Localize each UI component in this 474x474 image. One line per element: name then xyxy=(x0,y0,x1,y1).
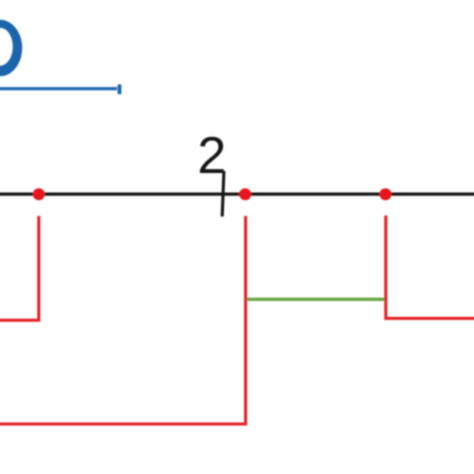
red path from point 1 xyxy=(0,216,39,320)
title underline end tick xyxy=(118,84,122,94)
number line xyxy=(0,192,474,195)
point dot 1 xyxy=(33,188,45,200)
green segment xyxy=(246,298,386,301)
title glyph 0 (partial, cropped at left edge) xyxy=(0,20,22,77)
tick mark for 2 xyxy=(222,171,224,217)
title underline (blue) xyxy=(0,87,117,90)
red path from point 3 xyxy=(386,216,474,319)
svg-text:2: 2 xyxy=(197,127,226,185)
red path from point 2 xyxy=(0,216,246,424)
point dot 3 xyxy=(380,188,392,200)
point dot 2 xyxy=(239,188,251,200)
